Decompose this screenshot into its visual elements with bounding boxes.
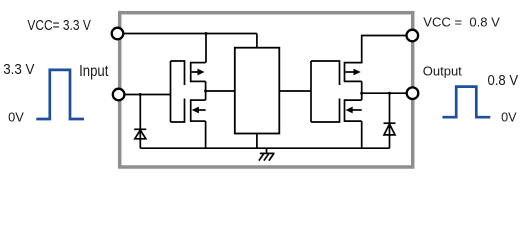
transistor Q3 (PMOS) bbox=[345, 62, 362, 82]
wire D1 branch input to ground rail bbox=[139, 95, 141, 149]
node inverter2 output vertical bbox=[361, 81, 363, 100]
ground rail bbox=[140, 147, 389, 149]
arrow Q1 body (points right) bbox=[197, 69, 204, 76]
junction D1 / input wire bbox=[139, 93, 142, 96]
wire block bottom to ground rail bbox=[256, 134, 258, 149]
svg-text:Output: Output bbox=[423, 63, 462, 78]
wire Q1 drain to VCC rail bbox=[205, 34, 207, 63]
svg-text:VCC = 0.8 V: VCC = 0.8 V bbox=[423, 15, 500, 30]
wire Q3 drain to VCC-R bbox=[362, 36, 407, 64]
diode D2 (output ESD) bbox=[384, 123, 396, 135]
svg-text:0V: 0V bbox=[8, 109, 24, 124]
wire VCC-L rail bbox=[124, 33, 257, 35]
arrow Q3 body (points right) bbox=[354, 69, 361, 76]
junction Q1 drain / VCC rail bbox=[205, 32, 208, 35]
waveform input pulse bbox=[36, 70, 84, 119]
wire input bbox=[125, 94, 171, 96]
IC package outline bbox=[120, 13, 413, 167]
transistor Q2 (NMOS) bbox=[191, 99, 206, 122]
svg-text:Input: Input bbox=[79, 63, 109, 80]
terminal VCC-L bbox=[112, 28, 124, 40]
wire Q2 source to ground rail bbox=[205, 121, 207, 148]
wire output bbox=[362, 92, 407, 94]
ground bbox=[259, 148, 275, 160]
diode D1 (input ESD) bbox=[134, 129, 146, 139]
transistor Q1 (PMOS) bbox=[191, 62, 206, 82]
wire drop to level-shift block top bbox=[256, 34, 258, 48]
arrow Q4 body (points left) bbox=[346, 107, 353, 114]
wire inverter1 output to block bbox=[206, 90, 235, 92]
terminal VCC-R bbox=[407, 30, 419, 42]
terminal Input bbox=[113, 89, 125, 101]
arrow Q2 body (points left) bbox=[192, 107, 199, 114]
junction inverter1 output bbox=[204, 90, 207, 93]
svg-text:3.3 V: 3.3 V bbox=[3, 62, 35, 78]
junction inverter2 output bbox=[360, 92, 363, 95]
svg-text:0V: 0V bbox=[501, 109, 517, 124]
gate electrode bracket inverter2 bbox=[311, 61, 340, 122]
svg-text:VCC= 3.3 V: VCC= 3.3 V bbox=[27, 18, 91, 34]
wire Q4 source to ground rail bbox=[361, 121, 363, 148]
gate electrode bracket inverter1 bbox=[171, 61, 185, 122]
terminal Output bbox=[407, 87, 419, 99]
node inverter1 output vertical bbox=[205, 81, 207, 100]
svg-text:0.8 V: 0.8 V bbox=[488, 73, 519, 89]
wire D2 branch output to ground rail bbox=[389, 93, 391, 148]
waveform output pulse bbox=[442, 87, 490, 118]
junction D2 / output wire bbox=[388, 92, 391, 95]
transistor Q4 (NMOS) bbox=[345, 99, 362, 122]
wire block to inverter2 gate bbox=[280, 90, 312, 92]
level-shift block bbox=[235, 48, 279, 134]
